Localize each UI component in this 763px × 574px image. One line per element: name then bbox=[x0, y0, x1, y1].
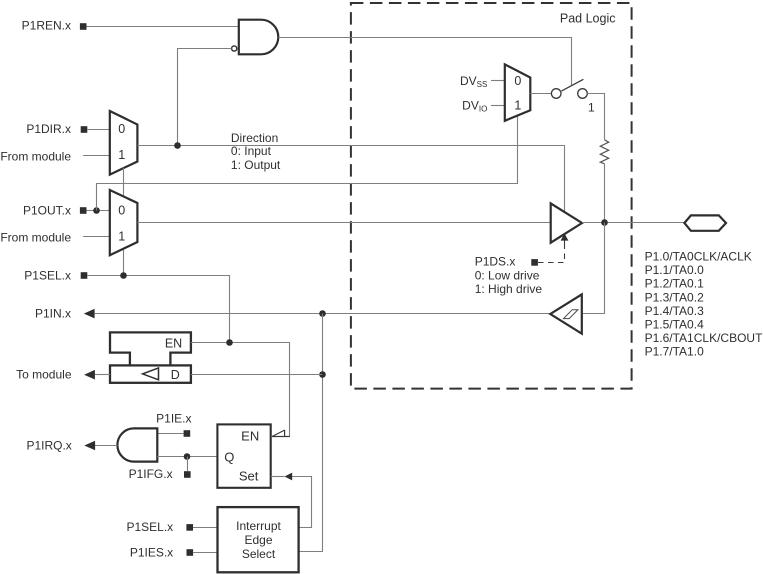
svg-text:P1.5/TA0.4: P1.5/TA0.4 bbox=[645, 317, 704, 331]
svg-text:Q: Q bbox=[224, 449, 234, 464]
node Direction junction bbox=[174, 142, 181, 149]
node EN/P1SEL junction bbox=[226, 339, 233, 346]
wire driver output to pad bbox=[582, 222, 684, 224]
buffer U4 (output driver) bbox=[551, 203, 582, 242]
label P1IFG.x bbox=[129, 467, 191, 481]
switch S1 (resistor enable) bbox=[551, 79, 595, 114]
block Interrupt Edge Select bbox=[218, 507, 299, 572]
wire edge select output to Set bbox=[292, 477, 312, 528]
svg-text:0: 0 bbox=[514, 74, 521, 88]
arrow into Set bbox=[285, 473, 293, 481]
arrow P1IN output bbox=[84, 309, 95, 319]
wire IRQ output bbox=[95, 445, 118, 447]
svg-text:P1REN.x: P1REN.x bbox=[22, 18, 71, 32]
label P1SEL.x lower bbox=[126, 520, 193, 534]
svg-text:0: 0 bbox=[118, 122, 125, 136]
node P1IFG junction bbox=[184, 453, 191, 460]
svg-text:From module: From module bbox=[0, 230, 71, 244]
svg-text:Interrupt: Interrupt bbox=[236, 519, 281, 533]
pad P1 pin bbox=[684, 215, 726, 230]
wire D output to module bbox=[95, 374, 110, 376]
nand gate U1 (REN enable) bbox=[239, 20, 279, 55]
svg-text:P1.7/TA1.0: P1.7/TA1.0 bbox=[645, 345, 704, 359]
label P1OUT.x bbox=[23, 204, 87, 218]
wire P1OUT to mux2 bbox=[87, 210, 110, 212]
wire EN latch to flag EN bbox=[191, 343, 290, 437]
node pad junction bbox=[601, 219, 608, 226]
svg-text:Pad Logic: Pad Logic bbox=[560, 11, 616, 25]
svg-text:Set: Set bbox=[239, 469, 259, 484]
label P1IE.x bbox=[156, 411, 191, 437]
svg-text:P1.6/TA1CLK/CBOUT: P1.6/TA1CLK/CBOUT bbox=[645, 331, 763, 345]
svg-text:EN: EN bbox=[241, 429, 259, 444]
wire P1OUT to DV mux select bbox=[97, 116, 518, 211]
latch D (input latch) bbox=[110, 365, 191, 382]
wire from module to mux2 bbox=[83, 236, 110, 238]
mux M1 (P1DIR select) bbox=[110, 111, 138, 175]
svg-text:P1.1/TA0.0: P1.1/TA0.0 bbox=[645, 263, 704, 277]
wire pad to Schmitt input bbox=[582, 223, 605, 314]
svg-text:P1DIR.x: P1DIR.x bbox=[26, 122, 71, 136]
mux M2 (P1OUT select) bbox=[110, 190, 138, 255]
wire P1REN to NAND bbox=[87, 26, 239, 28]
svg-text:P1DS.x: P1DS.x bbox=[475, 254, 516, 268]
svg-text:P1IN.x: P1IN.x bbox=[35, 307, 71, 321]
wire mux2 output to driver bbox=[137, 222, 550, 224]
svg-text:1: 1 bbox=[514, 99, 521, 113]
svg-text:P1IRQ.x: P1IRQ.x bbox=[26, 438, 71, 452]
wire switch to resistor bbox=[587, 94, 604, 140]
label P1DIR.x bbox=[26, 122, 87, 136]
wire P1DIR to mux bbox=[87, 129, 110, 131]
svg-text:P1.4/TA0.3: P1.4/TA0.3 bbox=[645, 304, 704, 318]
svg-text:0: 0 bbox=[118, 203, 125, 217]
svg-text:To module: To module bbox=[16, 368, 72, 382]
wire P1SEL net bbox=[87, 276, 229, 343]
inverting bubble on U1 lower input bbox=[232, 46, 237, 51]
svg-text:1: 1 bbox=[118, 148, 125, 162]
svg-text:1: High drive: 1: High drive bbox=[475, 282, 543, 296]
label P1SEL.x bbox=[24, 269, 87, 283]
svg-text:P1.3/TA0.2: P1.3/TA0.2 bbox=[645, 290, 704, 304]
schmitt trigger U5 (input buffer) bbox=[550, 294, 582, 333]
Direction annotation bbox=[231, 131, 281, 172]
svg-text:P1IES.x: P1IES.x bbox=[130, 545, 173, 559]
svg-text:Direction: Direction bbox=[231, 131, 278, 145]
node D-input junction bbox=[319, 371, 326, 378]
svg-text:D: D bbox=[171, 368, 180, 382]
arrow P1IRQ bbox=[84, 441, 95, 451]
pin name list bbox=[645, 250, 763, 359]
wire mux2 select to P1SEL net bbox=[123, 249, 125, 276]
svg-text:P1SEL.x: P1SEL.x bbox=[126, 520, 173, 534]
latch EN (input latch enable) bbox=[110, 332, 191, 365]
wire P1SEL to edge select bbox=[193, 527, 218, 529]
wire from module to mux1 bbox=[83, 155, 110, 157]
svg-text:1: 1 bbox=[118, 229, 125, 243]
wire U1 lower input from Direction node bbox=[178, 49, 232, 146]
wire M3 output to switch bbox=[530, 93, 551, 95]
svg-text:1: 1 bbox=[588, 100, 595, 114]
resistor R1 (pullup/pulldown) bbox=[600, 140, 608, 164]
svg-text:0: Low drive: 0: Low drive bbox=[475, 269, 540, 283]
Pad Logic dashed box bbox=[351, 3, 632, 389]
wire P1DS dashed control bbox=[538, 249, 565, 263]
wire P1IE to gate bbox=[157, 433, 183, 435]
svg-text:Edge: Edge bbox=[244, 533, 272, 547]
arrow P1DS into driver bbox=[564, 240, 566, 249]
wire Q output to gate bbox=[157, 456, 217, 458]
node P1SEL mux junction bbox=[120, 272, 127, 279]
wire D input bbox=[191, 374, 323, 376]
svg-text:EN: EN bbox=[165, 336, 182, 350]
svg-text:P1OUT.x: P1OUT.x bbox=[23, 204, 71, 218]
wire U1 output to switch control bbox=[278, 38, 571, 86]
wire P1IN net from Schmitt bbox=[94, 313, 550, 315]
mux M3 (pull resistor source) bbox=[505, 64, 531, 120]
svg-text:P1SEL.x: P1SEL.x bbox=[24, 269, 71, 283]
label P1REN.x bbox=[22, 18, 87, 32]
wire Set input with arrow bbox=[271, 476, 285, 478]
svg-text:P1IE.x: P1IE.x bbox=[156, 411, 191, 425]
wire junction to P1IFG square bbox=[187, 457, 189, 472]
node P1OUT junction bbox=[93, 207, 100, 214]
node P1IN junction bbox=[319, 310, 326, 317]
svg-text:1: Output: 1: Output bbox=[231, 158, 281, 172]
wire resistor to pad node bbox=[604, 164, 606, 223]
wire mux select P1SEL between muxes bbox=[123, 168, 125, 197]
flag latch U3 (interrupt flag) bbox=[217, 424, 270, 487]
arrow To module bbox=[84, 370, 95, 380]
edge trigger symbol on U3 EN bbox=[272, 430, 290, 437]
svg-text:P1.0/TA0CLK/ACLK: P1.0/TA0CLK/ACLK bbox=[645, 250, 752, 264]
svg-text:Select: Select bbox=[242, 547, 276, 561]
svg-text:P1.2/TA0.1: P1.2/TA0.1 bbox=[645, 277, 704, 291]
svg-text:From module: From module bbox=[0, 150, 71, 164]
wire DVio stub bbox=[491, 105, 505, 107]
wire Direction net to output buffer enable bbox=[137, 146, 564, 213]
label P1DS.x annotation bbox=[475, 254, 543, 296]
wire DVss stub bbox=[491, 80, 505, 82]
and gate U2 (interrupt) bbox=[117, 428, 157, 461]
label P1IES.x bbox=[130, 545, 193, 559]
wire pin feedback vertical to edge select bbox=[299, 314, 323, 552]
svg-text:P1IFG.x: P1IFG.x bbox=[129, 467, 173, 481]
svg-text:0: Input: 0: Input bbox=[231, 144, 272, 158]
wire P1IES to edge select bbox=[193, 552, 217, 554]
